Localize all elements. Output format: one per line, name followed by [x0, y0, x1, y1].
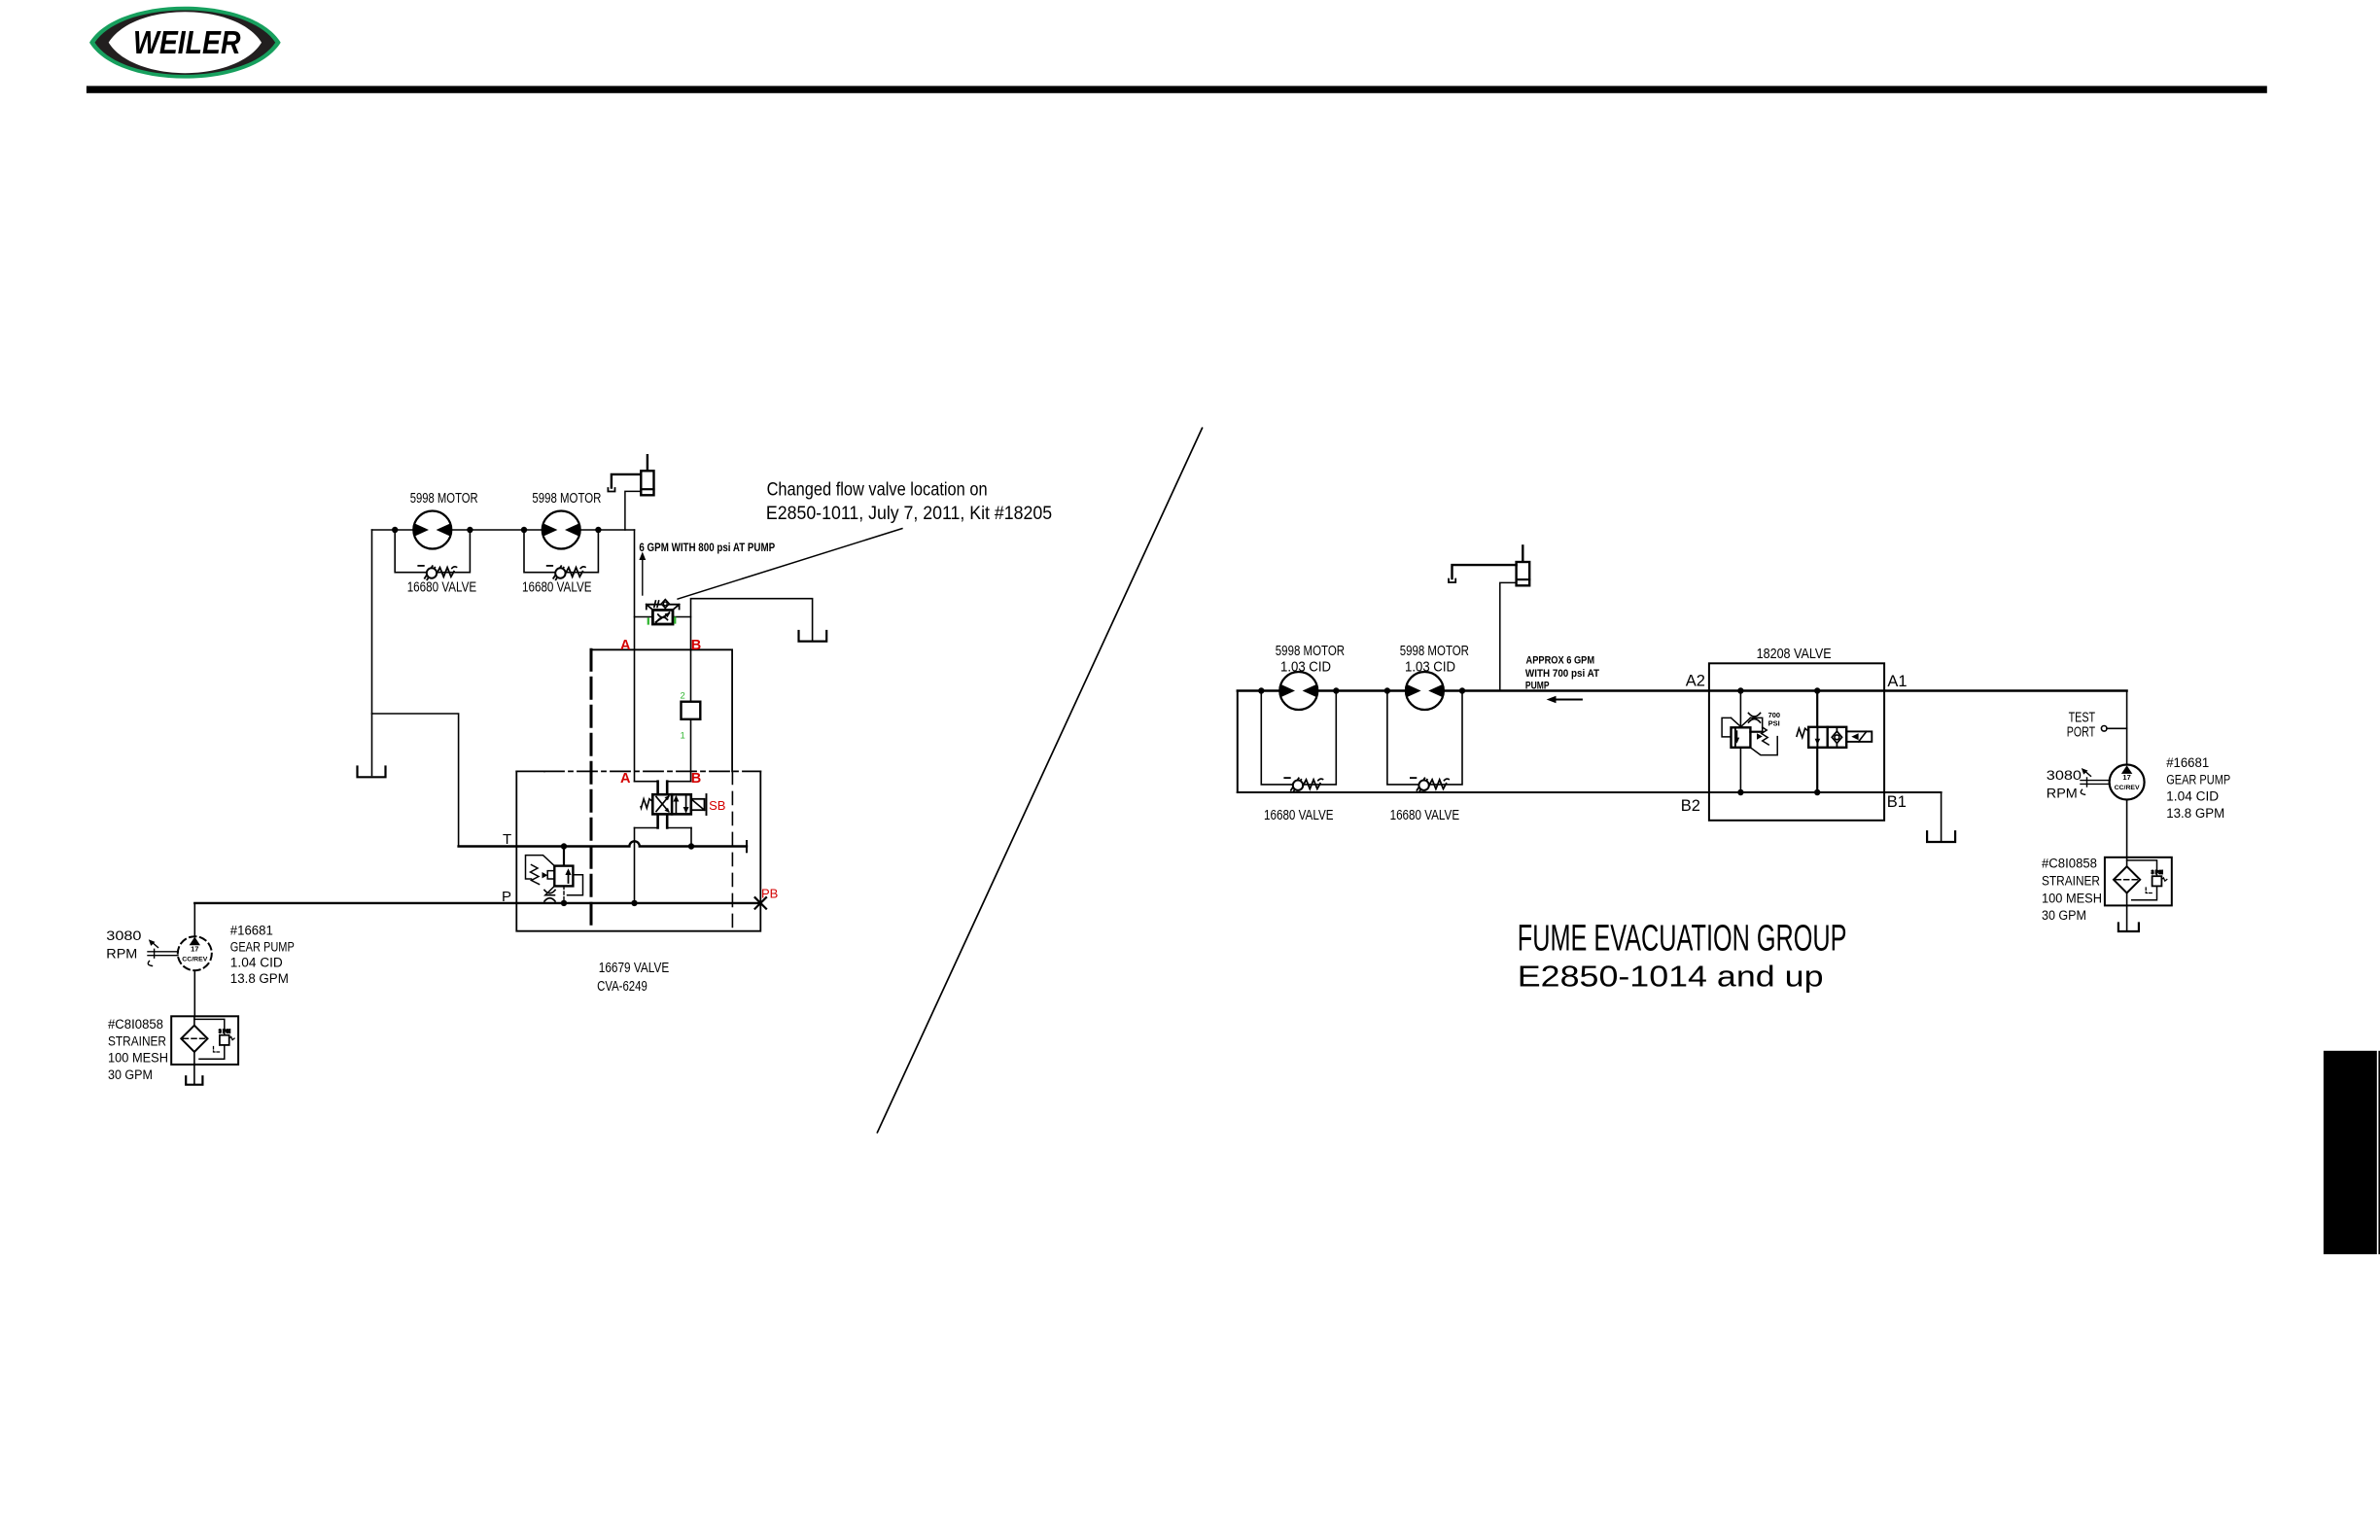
relief valve (16679 internal) [526, 847, 583, 903]
motor M1 (5998) [413, 511, 451, 549]
svg-text:13.8 GPM: 13.8 GPM [2166, 806, 2224, 821]
wire: strainer to tank (right) [2126, 905, 2128, 930]
svg-text:1.04 CID: 1.04 CID [2166, 789, 2219, 804]
T-line with hop [459, 841, 747, 846]
svg-text:GEAR PUMP: GEAR PUMP [2166, 773, 2230, 787]
svg-text:16680 VALVE: 16680 VALVE [522, 580, 592, 596]
left rail (right schematic) [1237, 691, 1239, 793]
svg-text:B: B [691, 771, 701, 787]
wire: motor1 bypass loop [395, 530, 470, 573]
svg-text:#16681: #16681 [2166, 755, 2209, 770]
wire: breather to supply line [625, 491, 641, 530]
svg-text:1: 1 [681, 731, 685, 742]
svg-text:16680 VALVE: 16680 VALVE [407, 580, 477, 596]
svg-text:CC/REV: CC/REV [2115, 785, 2141, 791]
wire: motor2 bypass loop [524, 530, 598, 573]
svg-text:100 MESH: 100 MESH [108, 1051, 168, 1066]
svg-text:TEST: TEST [2069, 711, 2096, 726]
svg-text:STRAINER: STRAINER [108, 1034, 166, 1049]
upper manifold box [591, 649, 732, 771]
solenoid valve SB stubs [658, 782, 668, 828]
svg-text:STRAINER: STRAINER [2042, 874, 2100, 889]
thick dashed manifold edge [590, 649, 593, 930]
page tab marker [2324, 1051, 2377, 1254]
svg-text:PORT: PORT [2067, 725, 2095, 741]
flow control valve 16679 (top) [635, 600, 691, 624]
svg-text:#C8I0858: #C8I0858 [2042, 857, 2097, 871]
lower valve body 16679 outline [516, 771, 760, 930]
wire: motor4 bypass loop [1387, 691, 1462, 785]
orifice box on B leg [682, 702, 701, 719]
svg-text:P: P [502, 889, 511, 905]
svg-text:6 GPM WITH 800 psi AT PUMP: 6 GPM WITH 800 psi AT PUMP [639, 541, 775, 554]
flow direction arrow up [639, 552, 646, 596]
svg-text:FUME EVACUATION GROUP: FUME EVACUATION GROUP [1518, 919, 1847, 960]
svg-text:B: B [691, 638, 701, 653]
svg-text:PSI: PSI [1768, 719, 1780, 728]
strainer S2 (#C810858) [2105, 857, 2172, 906]
header bar [87, 86, 2267, 92]
svg-text:3080: 3080 [2047, 768, 2082, 783]
wire: pump to strainer [193, 970, 195, 1016]
svg-text:5998 MOTOR: 5998 MOTOR [532, 491, 601, 507]
svg-text:B2: B2 [1681, 797, 1700, 815]
svg-text:16680 VALVE: 16680 VALVE [1264, 808, 1334, 823]
junction dots T-line [561, 843, 694, 849]
green port ticks [648, 618, 676, 624]
junction dots A-line motors [1258, 687, 1465, 693]
solenoid check valve (18208 internal) [1797, 691, 1872, 793]
svg-text:17: 17 [2122, 773, 2130, 782]
junction dots 18208 [1737, 687, 1820, 795]
wire: breather to A-line [1500, 582, 1517, 690]
svg-text:A2: A2 [1686, 673, 1705, 690]
breather/filler assembly (left) [608, 455, 653, 495]
svg-text:PUMP: PUMP [1525, 680, 1550, 691]
svg-text:A: A [620, 771, 631, 787]
svg-text:13.8 GPM: 13.8 GPM [230, 971, 289, 986]
motor M4 (5998) [1406, 672, 1444, 710]
svg-text:3 PSI: 3 PSI [2152, 870, 2164, 876]
svg-text:B1: B1 [1887, 793, 1907, 811]
Weiler logo [89, 7, 281, 79]
motor M2 (5998) [542, 511, 580, 549]
svg-text:30 GPM: 30 GPM [108, 1067, 153, 1082]
port PB X marker [755, 897, 766, 908]
diagonal separator line [877, 428, 1202, 1133]
svg-text:SB: SB [709, 798, 725, 813]
junction dots P-line [561, 900, 638, 906]
18208 valve box [1709, 663, 1884, 821]
wire: B1 to tank [1941, 792, 1942, 842]
wire: left return rail [371, 530, 373, 776]
svg-text:2: 2 [681, 691, 685, 702]
B2 return line [1238, 791, 1942, 793]
motor M3 (5998) [1279, 672, 1317, 710]
P-line [194, 902, 760, 904]
svg-text:APPROX 6 GPM: APPROX 6 GPM [1526, 655, 1595, 667]
svg-text:3080: 3080 [106, 928, 141, 943]
svg-text:3 PSI: 3 PSI [219, 1030, 231, 1035]
svg-text:E2850-1014 and up: E2850-1014 and up [1518, 961, 1824, 994]
note leader line [678, 529, 902, 600]
svg-text:5998 MOTOR: 5998 MOTOR [1276, 644, 1345, 659]
svg-text:A: A [620, 638, 631, 653]
svg-text:1.04 CID: 1.04 CID [230, 956, 283, 970]
wire: motor supply line [372, 529, 635, 531]
gear pump P1 (#16681) [148, 936, 212, 970]
svg-text:17: 17 [191, 944, 198, 953]
flow arrow left [1547, 696, 1582, 703]
svg-text:5998 MOTOR: 5998 MOTOR [410, 491, 478, 507]
svg-text:30 GPM: 30 GPM [2042, 908, 2086, 923]
wire: motor3 bypass loop [1261, 691, 1336, 785]
svg-text:T: T [503, 831, 511, 848]
tank T5 (B1) [1927, 831, 1955, 842]
svg-text:E2850-1011, July 7, 2011, Kit: E2850-1011, July 7, 2011, Kit #18205 [766, 503, 1052, 524]
wire: T drop to T-line [690, 828, 692, 847]
wire: B leg with tank branch [691, 599, 813, 782]
wire: pump to strainer (right) [2126, 800, 2128, 857]
svg-text:16680 VALVE: 16680 VALVE [1390, 808, 1460, 823]
wire: supply down-leg (A) [634, 530, 636, 782]
wire: strainer to tank [193, 1065, 195, 1084]
solenoid valve SB jog wires [635, 782, 692, 828]
svg-text:A1: A1 [1887, 673, 1907, 690]
svg-text:100 MESH: 100 MESH [2042, 891, 2102, 905]
relief/regulator 700 PSI [1722, 691, 1777, 793]
check valve V2 (16680) [547, 566, 585, 579]
strainer S1 (#C810858) [171, 1016, 238, 1065]
svg-text:WITH 700 psi AT: WITH 700 psi AT [1525, 668, 1599, 680]
svg-text:PB: PB [761, 887, 778, 901]
gear pump P2 (#16681) [2081, 765, 2145, 800]
check valve V1 (16680) [418, 566, 456, 579]
wire: A1 to pump [2126, 691, 2128, 766]
svg-text:#16681: #16681 [230, 924, 273, 938]
tank T1 (left rail) [358, 767, 386, 778]
test port [2101, 726, 2126, 732]
svg-text:Changed flow valve location on: Changed flow valve location on [767, 479, 988, 501]
wire: pump to P-line [193, 903, 195, 937]
svg-text:CC/REV: CC/REV [182, 956, 208, 962]
tank T2 (B branch) [799, 631, 827, 642]
svg-text:RPM: RPM [2047, 787, 2078, 801]
check valve V4 (16680) [1411, 778, 1449, 791]
svg-text:18208 VALVE: 18208 VALVE [1757, 646, 1832, 662]
wire: rail branch to T-port [372, 714, 459, 847]
breather/filler assembly (right) [1449, 545, 1529, 585]
svg-text:GEAR PUMP: GEAR PUMP [230, 939, 295, 954]
tank T3 (below strainer) [186, 1076, 202, 1085]
svg-text:16679 VALVE: 16679 VALVE [599, 961, 670, 976]
svg-text:#C8I0858: #C8I0858 [108, 1017, 163, 1032]
solenoid valve SB (4-way) [641, 794, 706, 815]
wire: P drop to P-line [634, 828, 636, 903]
svg-text:CVA-6249: CVA-6249 [597, 979, 647, 995]
T-line end tick [746, 841, 748, 852]
junction dots motor line [392, 527, 602, 533]
A-line (motor supply) [1238, 689, 2127, 691]
svg-text:RPM: RPM [106, 947, 137, 962]
svg-text:5998 MOTOR: 5998 MOTOR [1400, 644, 1469, 659]
dashed internal line [731, 771, 733, 930]
check valve V3 (16680) [1284, 778, 1322, 791]
tank T4 (below strainer right) [2118, 924, 2139, 932]
svg-text:WEILER: WEILER [133, 24, 241, 60]
